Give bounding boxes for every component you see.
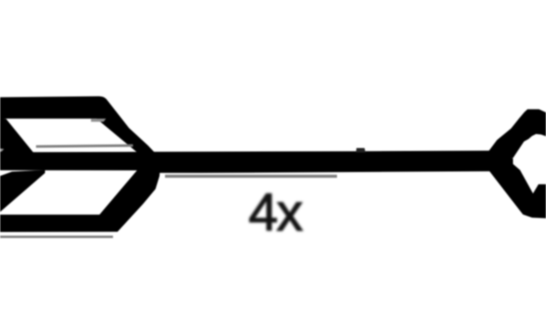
- near-end face upper chevron edge: [0, 118, 35, 154]
- svg-text:4x: 4x: [249, 184, 303, 243]
- small tick above shaft: [356, 148, 366, 153]
- axle far-end lower arm with end knob: [488, 164, 546, 218]
- thin highlight line above mid bar: [36, 144, 133, 148]
- thin shadow line below bottom bar: [0, 236, 113, 238]
- axle near-end top bar with right diagonal: [0, 96, 157, 162]
- gray notch at left edge between chevron and mid bar: [0, 149, 4, 152]
- gray corner smudge at top parallelogram right: [91, 119, 106, 122]
- axle far-end upper arm: [488, 109, 546, 158]
- thin shadow line below shaft: [165, 175, 337, 178]
- near-end face lower chevron edge: [0, 170, 45, 212]
- axle near-end bottom bar with right diagonal: [0, 168, 160, 232]
- axle shaft and mid bar: [0, 151, 513, 173]
